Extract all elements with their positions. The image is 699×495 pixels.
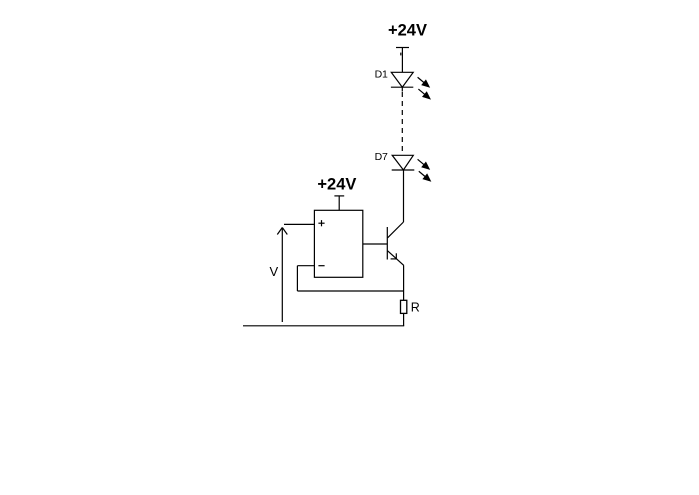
- wire (non-inverting input): [284, 223, 314, 225]
- svg-text:R: R: [411, 301, 420, 315]
- LED D7 light arrow 1: [415, 157, 432, 173]
- LED D1 light arrow 1: [415, 74, 432, 90]
- transistor Q1 (NPN): [387, 222, 404, 265]
- svg-text:+24V: +24V: [317, 176, 356, 194]
- svg-text:V: V: [270, 264, 279, 279]
- svg-text:D1: D1: [375, 69, 388, 81]
- LED D7: [392, 155, 415, 170]
- LED D7 light arrow 2: [416, 168, 433, 184]
- LED D1 light arrow 2: [416, 86, 433, 102]
- wire (resistor to bottom rail): [403, 313, 405, 325]
- voltage arrow V: [277, 228, 287, 323]
- op-amp inverting input pin label -: [318, 265, 324, 267]
- wire (D7 cathode to transistor collector): [403, 170, 405, 222]
- svg-text:+24V: +24V: [388, 22, 427, 40]
- wire (bottom rail): [243, 325, 404, 327]
- power rail symbol (top, T-bar): [396, 48, 409, 73]
- wire (dashed, D1 cathode to D7 anode): [401, 92, 403, 154]
- LED D1: [391, 72, 413, 91]
- op-amp non-inverting input pin label +: [318, 220, 324, 226]
- wire (op-amp output to base): [363, 243, 388, 245]
- wire (emitter to resistor): [403, 265, 405, 300]
- resistor R: [401, 300, 407, 313]
- wire (feedback horizontal to emitter node): [297, 290, 403, 292]
- wire (inverting input): [297, 265, 314, 267]
- svg-text:D7: D7: [375, 151, 388, 163]
- op-amp U1 (comparator box): [314, 210, 362, 277]
- wire (feedback vertical): [296, 266, 298, 291]
- power rail symbol (op-amp supply, T-bar): [334, 196, 344, 210]
